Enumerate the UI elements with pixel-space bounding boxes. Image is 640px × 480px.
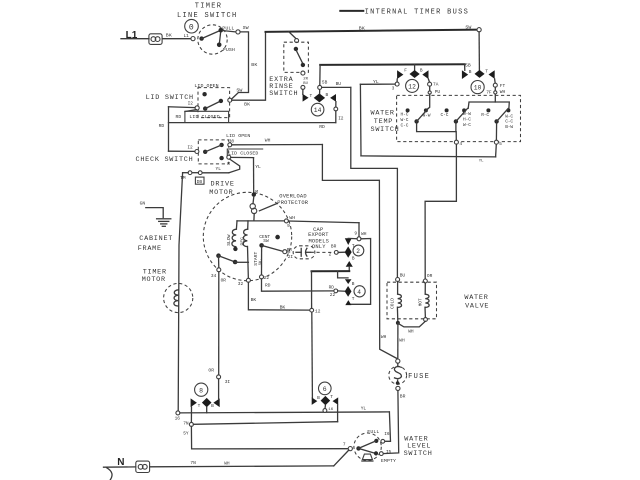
svg-text:BK: BK — [251, 297, 257, 303]
wire RD from 22 to connector 4 — [262, 279, 345, 298]
cent sw fixed contact dot — [275, 235, 280, 240]
svg-text:SWITCH: SWITCH — [404, 450, 433, 458]
svg-text:14: 14 — [314, 107, 322, 114]
svg-text:C-C: C-C — [401, 123, 409, 129]
svg-text:4: 4 — [357, 289, 361, 296]
lid switch contact I2 — [188, 101, 200, 111]
line switch contacts and arm — [191, 28, 223, 47]
svg-text:CABINET: CABINET — [139, 235, 173, 243]
timer motor dashed circle — [164, 283, 193, 312]
wire PULL to SW contact — [223, 31, 236, 32]
svg-text:I5: I5 — [386, 449, 392, 455]
svg-text:9: 9 — [354, 231, 357, 237]
svg-text:WH: WH — [224, 461, 230, 467]
extra rinse switch dashed box — [284, 42, 309, 72]
svg-text:RD: RD — [329, 284, 335, 290]
cold valve coil — [389, 282, 401, 360]
wire contact 12 down to switch 6 — [311, 312, 314, 397]
contact 7N — [183, 421, 193, 427]
motor terminal M — [252, 189, 259, 197]
check switch contact I2 — [187, 145, 199, 154]
water valve dashed box — [387, 282, 437, 319]
svg-text:OR: OR — [221, 278, 227, 284]
svg-text:BR: BR — [331, 243, 337, 249]
motor terminal 34 — [211, 256, 226, 284]
label OVERLOAD PROTECTOR — [259, 194, 308, 211]
temp switch bottom links — [417, 123, 497, 140]
timer switch group 12 — [392, 65, 441, 95]
svg-text:PUSH: PUSH — [223, 47, 235, 53]
svg-text:EMPTY: EMPTY — [381, 458, 396, 464]
svg-text:5: 5 — [499, 141, 502, 147]
timer switch group 8 — [191, 383, 220, 422]
svg-text:FULL: FULL — [367, 429, 379, 435]
svg-text:2I: 2I — [288, 254, 294, 260]
svg-text:I2: I2 — [187, 145, 193, 151]
svg-text:T: T — [198, 403, 201, 409]
svg-text:BK: BK — [166, 33, 172, 39]
lid switch dashed box — [198, 88, 230, 118]
svg-text:C-C: C-C — [441, 112, 449, 118]
motor speed selector arm — [216, 253, 248, 264]
slow winding — [226, 221, 238, 251]
timer switch group 6 — [312, 382, 339, 412]
bus wire 7N (bus2) — [193, 405, 337, 424]
svg-text:WATER: WATER — [464, 294, 488, 302]
svg-text:SW: SW — [263, 238, 269, 244]
wire N to connector — [104, 466, 136, 468]
contact M of check switch — [219, 155, 230, 167]
svg-text:7A: 7A — [433, 81, 439, 87]
svg-text:B: B — [326, 92, 329, 98]
timer buss y64 — [320, 64, 465, 85]
main BK buss (internal timer buss) — [266, 30, 480, 32]
check switch arm — [203, 145, 221, 154]
contact 30 — [219, 139, 234, 147]
lid open contact dot — [202, 92, 206, 96]
svg-text:WH: WH — [265, 137, 271, 143]
label WATER TEMP SWITCH — [371, 110, 400, 135]
timer switch group 14: left triangle T — [303, 89, 313, 101]
svg-text:LID CLOSED: LID CLOSED — [189, 114, 219, 120]
svg-text:MOTOR: MOTOR — [142, 276, 166, 284]
water level switch — [343, 429, 396, 464]
timer switch group 10 — [462, 32, 506, 96]
svg-text:T: T — [352, 296, 355, 302]
check switch dashed box — [198, 140, 228, 164]
svg-text:34: 34 — [211, 273, 217, 279]
label CAP EXPORT MODELS ONLY — [308, 227, 329, 250]
svg-text:INTERNAL TIMER BUSS: INTERNAL TIMER BUSS — [365, 9, 470, 17]
extra rinse arm — [294, 47, 305, 67]
svg-text:W-C: W-C — [401, 117, 409, 123]
wire YL bus to water level FULL — [385, 412, 391, 441]
svg-text:PU: PU — [435, 89, 441, 95]
motor terminal 22 — [260, 248, 271, 289]
svg-text:T: T — [485, 69, 488, 75]
wire OR from terminal 4 to hot valve — [423, 144, 456, 283]
svg-text:B: B — [317, 395, 320, 401]
svg-text:WH: WH — [408, 329, 414, 335]
svg-text:RD: RD — [265, 283, 271, 289]
svg-text:8: 8 — [199, 387, 203, 394]
svg-text:H-C: H-C — [401, 112, 409, 118]
svg-text:F: F — [404, 68, 407, 74]
svg-text:7: 7 — [343, 442, 346, 448]
motor terminal 9 WH — [284, 215, 295, 229]
connector plug N — [136, 461, 150, 472]
svg-text:0: 0 — [189, 23, 194, 32]
wire BU from 5B to cold valve — [322, 81, 398, 277]
timer switch group 14: right triangle B — [326, 92, 337, 102]
temp switch contacts — [406, 108, 511, 123]
svg-text:BK: BK — [280, 305, 286, 311]
svg-text:MOTOR: MOTOR — [209, 189, 233, 197]
svg-text:WH: WH — [381, 334, 387, 340]
svg-text:C-C: C-C — [505, 119, 513, 125]
connector 2 — [345, 238, 364, 266]
svg-text:5Y: 5Y — [183, 431, 189, 437]
label LID CLOSED (check switch) — [227, 149, 263, 157]
svg-text:12: 12 — [408, 83, 416, 90]
svg-text:B-W: B-W — [505, 124, 513, 130]
wire lid switch SW to buss riser — [232, 32, 266, 100]
svg-text:L1: L1 — [184, 33, 190, 39]
svg-text:SW: SW — [465, 24, 471, 30]
cent sw arm to contact 21 — [259, 243, 293, 260]
label DB boxed — [195, 177, 204, 185]
svg-text:2: 2 — [329, 252, 332, 258]
svg-text:DRIVE: DRIVE — [211, 181, 235, 189]
svg-text:PROTECTOR: PROTECTOR — [277, 200, 308, 206]
svg-text:B: B — [420, 68, 423, 74]
svg-text:OR: OR — [427, 273, 433, 279]
label CENT SW — [259, 234, 270, 244]
branch wire buss to extra rinse — [289, 32, 296, 39]
wire N to water level common — [150, 450, 349, 467]
svg-text:BU: BU — [400, 273, 406, 279]
svg-text:BR: BR — [400, 393, 406, 399]
connector contact BR 2 — [329, 243, 345, 257]
svg-text:RD: RD — [319, 124, 325, 130]
svg-text:H-C: H-C — [463, 117, 471, 123]
wire connector to line switch — [162, 38, 191, 40]
svg-text:BK: BK — [359, 25, 365, 31]
svg-text:ONLY: ONLY — [312, 244, 326, 250]
svg-text:T: T — [310, 93, 313, 99]
bus wire 16 (bus1) — [180, 406, 390, 413]
svg-text:10: 10 — [474, 85, 482, 92]
svg-text:SW: SW — [236, 87, 242, 93]
svg-text:B: B — [211, 403, 214, 409]
temp switch contact labels — [401, 111, 514, 130]
svg-text:B: B — [352, 281, 355, 287]
svg-text:7N: 7N — [183, 421, 189, 427]
svg-text:WH: WH — [361, 231, 367, 237]
drive motor dashed circle — [203, 192, 291, 280]
svg-text:W-C: W-C — [463, 122, 471, 128]
svg-text:DB: DB — [197, 179, 203, 185]
svg-text:22: 22 — [264, 275, 270, 281]
line switch dashed circle — [198, 25, 227, 54]
connector plug L1 — [149, 34, 162, 45]
jumper connector 2 B to connector 4 B and contact 12 — [312, 267, 350, 309]
svg-text:SWITCH: SWITCH — [371, 126, 400, 134]
svg-text:WH: WH — [399, 338, 405, 344]
svg-text:B: B — [352, 256, 355, 262]
svg-text:4: 4 — [459, 141, 462, 147]
svg-text:I2: I2 — [188, 101, 194, 107]
svg-text:M: M — [227, 161, 230, 167]
svg-text:LINE SWITCH: LINE SWITCH — [177, 12, 238, 20]
svg-text:32: 32 — [238, 281, 244, 287]
svg-text:TIMER: TIMER — [195, 2, 223, 10]
svg-text:I6: I6 — [384, 431, 390, 437]
svg-text:5B: 5B — [465, 62, 471, 68]
wire OR from 34 down to contact 31 — [208, 272, 230, 399]
label WATER LEVEL SWITCH — [404, 436, 433, 459]
svg-text:RD: RD — [159, 123, 165, 129]
contact I2 of group 14 — [334, 102, 344, 123]
timer motor bus vertical — [178, 173, 182, 413]
svg-text:COLD: COLD — [389, 298, 395, 309]
svg-text:2: 2 — [356, 248, 360, 255]
svg-text:YL: YL — [479, 160, 484, 164]
label: TIMER LINE SWITCH — [177, 2, 238, 20]
svg-text:LID OPEN: LID OPEN — [194, 83, 218, 89]
wire YL from contact M to drive motor — [231, 157, 261, 194]
label WATER VALVE — [464, 294, 489, 310]
svg-text:6: 6 — [323, 386, 327, 393]
label DRIVE MOTOR — [209, 181, 234, 197]
cabinet frame ground symbol — [140, 200, 171, 226]
overload protector — [250, 197, 257, 221]
label CABINET FRAME — [138, 235, 173, 253]
contact SW circle for switch 10 — [477, 28, 481, 32]
svg-text:LID OPEN: LID OPEN — [226, 133, 250, 139]
svg-text:EXPORT: EXPORT — [308, 232, 329, 238]
lid switch arm — [203, 99, 223, 111]
svg-text:FUSE: FUSE — [408, 373, 430, 381]
svg-text:W-W: W-W — [463, 111, 471, 117]
temp switch interior wiring — [426, 86, 509, 110]
page curl artifact — [107, 468, 112, 480]
svg-text:SW: SW — [243, 25, 249, 31]
wire BK down to lid switch — [231, 32, 248, 99]
svg-text:OVERLOAD: OVERLOAD — [279, 194, 306, 200]
label EXTRA RINSE SWITCH — [269, 76, 298, 98]
reference circle 14 — [311, 103, 324, 116]
svg-text:SLOW: SLOW — [226, 234, 232, 245]
svg-text:WATER: WATER — [371, 110, 395, 118]
svg-text:FRAME: FRAME — [138, 245, 162, 253]
svg-text:YL: YL — [255, 164, 261, 170]
label START winding — [253, 252, 263, 266]
svg-text:7F: 7F — [486, 90, 492, 96]
svg-text:5B: 5B — [322, 80, 328, 86]
wire BR fuse to water level switch — [383, 391, 399, 454]
temp switch terminal 5 — [494, 140, 502, 147]
motor internal top wire — [237, 220, 284, 222]
wire TM from contact M to timer motor bus — [180, 159, 240, 181]
svg-text:OR: OR — [208, 368, 214, 374]
svg-text:16: 16 — [328, 408, 333, 412]
fuse — [389, 338, 430, 400]
extra rinse top contact — [295, 39, 299, 43]
svg-text:CHECK SWITCH: CHECK SWITCH — [136, 156, 194, 164]
svg-text:2R: 2R — [303, 78, 308, 82]
svg-text:FT: FT — [500, 83, 506, 89]
wire from lid switch I2 to check switch — [169, 107, 196, 152]
temp switch terminal 4 — [454, 140, 462, 147]
svg-text:9: 9 — [287, 223, 290, 229]
svg-text:BK: BK — [251, 62, 257, 68]
label TIMER MOTOR — [142, 269, 167, 285]
svg-text:3I: 3I — [225, 379, 231, 385]
svg-text:YL: YL — [361, 406, 367, 412]
motor terminal 32 and BK wire to contact 12 — [238, 278, 321, 314]
svg-text:12: 12 — [315, 309, 321, 315]
svg-text:WH: WH — [289, 215, 295, 221]
long wire RD (lid closed) — [169, 123, 336, 131]
svg-text:SWITCH: SWITCH — [269, 90, 298, 98]
contact 5B circle — [318, 80, 328, 90]
svg-text:GN: GN — [140, 200, 146, 206]
wire YL from contact 3 loop to temp switch 5 — [360, 79, 496, 164]
timer motor terminal 16 — [175, 411, 181, 422]
timer switch group 14: cam diamond — [314, 89, 325, 102]
svg-text:BK: BK — [244, 102, 250, 108]
svg-text:W-W: W-W — [423, 113, 431, 119]
svg-text:WH: WH — [500, 89, 506, 95]
capacitor (export models) — [287, 246, 334, 259]
svg-text:RD: RD — [176, 114, 182, 120]
timer contact circle 0 — [185, 19, 199, 33]
bus wire 5Y (bus3) — [183, 426, 348, 449]
svg-text:R-C: R-C — [481, 112, 489, 118]
svg-text:BU: BU — [336, 81, 342, 87]
reg winding — [240, 221, 249, 280]
extra rinse lower contacts — [301, 71, 309, 89]
hot valve coil — [398, 283, 429, 335]
callout box LID CLOSED (lid switch) — [185, 110, 229, 123]
svg-text:16: 16 — [175, 416, 181, 422]
svg-text:3: 3 — [392, 86, 395, 92]
svg-text:VALVE: VALVE — [465, 303, 489, 311]
svg-text:7N: 7N — [190, 460, 196, 466]
svg-text:W-C: W-C — [505, 114, 513, 120]
connector 4 — [345, 279, 366, 305]
svg-text:TEMP: TEMP — [374, 118, 393, 126]
timer motor coil — [174, 290, 179, 306]
svg-text:B: B — [469, 69, 472, 75]
wire L1 to connector — [121, 38, 149, 40]
wire WH motor 9 to connector block — [288, 221, 370, 304]
svg-text:YL: YL — [216, 166, 222, 172]
svg-text:T: T — [330, 394, 333, 400]
svg-text:I2: I2 — [338, 116, 344, 122]
legend: internal timer buss — [340, 9, 469, 17]
svg-text:HOT: HOT — [417, 298, 423, 306]
svg-text:LID CLOSED: LID CLOSED — [228, 151, 258, 157]
water temp switch dashed box — [397, 95, 521, 141]
lid switch contact SW — [228, 98, 232, 102]
wire WH from contact 30 to fuse — [232, 137, 397, 358]
contact BU cold valve — [396, 273, 406, 282]
contact SW of line switch — [236, 30, 240, 34]
